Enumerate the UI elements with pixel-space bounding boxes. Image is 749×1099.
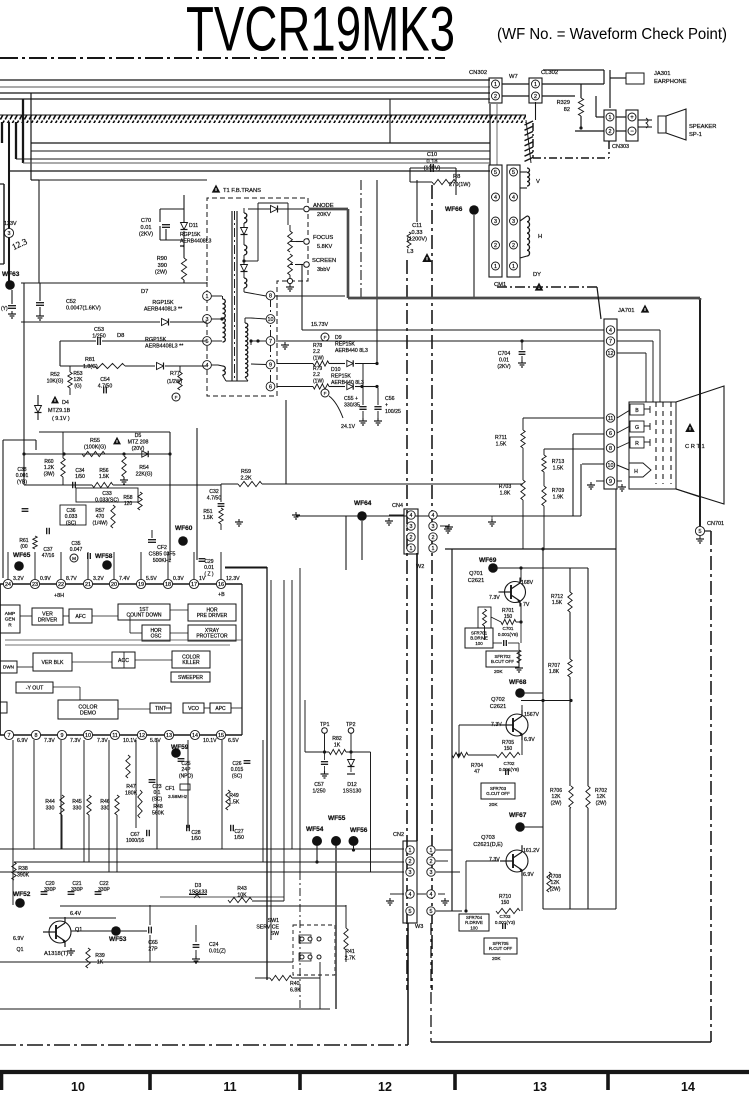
- svg-text:4: 4: [430, 892, 433, 898]
- svg-text:−: −: [630, 129, 634, 135]
- svg-text:C21: C21: [72, 881, 81, 887]
- svg-text:C703: C703: [500, 914, 511, 919]
- svg-text:3: 3: [494, 219, 497, 225]
- svg-text:F: F: [175, 395, 178, 400]
- svg-text:R.CUT OFF: R.CUT OFF: [489, 946, 513, 951]
- svg-text:WF53: WF53: [109, 936, 127, 943]
- svg-text:0.9V: 0.9V: [40, 576, 51, 582]
- svg-text:R49: R49: [229, 793, 239, 799]
- svg-text:+: +: [385, 402, 388, 408]
- svg-text:15: 15: [218, 733, 224, 739]
- svg-text:0.015: 0.015: [231, 767, 244, 773]
- svg-text:13: 13: [533, 1080, 547, 1094]
- svg-text:DRIVER: DRIVER: [38, 617, 58, 623]
- svg-text:(SC): (SC): [66, 520, 77, 526]
- svg-text:1: 1: [512, 264, 515, 270]
- svg-text:6.9V: 6.9V: [17, 738, 28, 744]
- svg-text:7.3V: 7.3V: [489, 595, 500, 601]
- svg-text:AERB440 8L3: AERB440 8L3: [335, 348, 368, 354]
- svg-text:7V: 7V: [523, 602, 530, 608]
- svg-text:5.8KV: 5.8KV: [317, 244, 333, 250]
- svg-text:5: 5: [699, 529, 702, 535]
- svg-text:12K: 12K: [74, 377, 84, 383]
- svg-text:C53: C53: [94, 327, 104, 333]
- svg-text:10.1V: 10.1V: [123, 738, 137, 744]
- svg-text:R78: R78: [313, 343, 322, 349]
- svg-text:C R T 1: C R T 1: [685, 444, 705, 450]
- svg-text:14: 14: [681, 1080, 695, 1094]
- svg-text:7.3V: 7.3V: [44, 738, 55, 744]
- svg-text:SCREEN: SCREEN: [312, 258, 336, 264]
- svg-text:R51: R51: [203, 509, 212, 515]
- svg-text:DEMO: DEMO: [80, 711, 96, 717]
- svg-text:(2KV): (2KV): [139, 232, 153, 238]
- svg-text:D12: D12: [347, 782, 357, 788]
- svg-text:0.0047(1.6KV): 0.0047(1.6KV): [66, 306, 101, 312]
- svg-text:+B: +B: [218, 592, 225, 598]
- svg-text:R: R: [635, 441, 639, 447]
- svg-text:WF68: WF68: [509, 679, 527, 686]
- svg-text:R79: R79: [313, 366, 322, 372]
- svg-text:7.4V: 7.4V: [119, 576, 130, 582]
- svg-text:PROTECTOR: PROTECTOR: [196, 634, 228, 640]
- svg-text:C67: C67: [130, 832, 139, 838]
- svg-text:1V: 1V: [199, 576, 206, 582]
- svg-text:8: 8: [35, 733, 38, 739]
- svg-text:C23: C23: [152, 784, 161, 790]
- svg-text:6: 6: [269, 384, 272, 390]
- svg-text:GEN: GEN: [5, 617, 16, 623]
- svg-text:10: 10: [268, 317, 274, 323]
- svg-text:F: F: [324, 391, 327, 396]
- svg-text:SPEAKER: SPEAKER: [689, 124, 716, 130]
- svg-text:1000/16: 1000/16: [126, 838, 144, 844]
- svg-text:100: 100: [475, 641, 483, 646]
- svg-text:R702: R702: [595, 788, 607, 794]
- svg-text:C11: C11: [412, 223, 422, 229]
- svg-text:161.2V: 161.2V: [523, 848, 540, 854]
- svg-text:R41: R41: [345, 949, 355, 955]
- svg-text:1.2K: 1.2K: [44, 465, 55, 471]
- svg-text:R329: R329: [557, 100, 570, 106]
- svg-text:2: 2: [430, 859, 433, 865]
- svg-text:4: 4: [432, 513, 435, 519]
- svg-text:(2W): (2W): [551, 800, 562, 806]
- svg-text:C57: C57: [314, 782, 324, 788]
- svg-text:V: V: [536, 179, 540, 185]
- svg-text:R706: R706: [550, 788, 562, 794]
- svg-text:CF2: CF2: [157, 545, 167, 551]
- svg-text:R707: R707: [548, 663, 560, 669]
- svg-text:C2621: C2621: [468, 578, 484, 584]
- svg-text:KILLER: KILLER: [182, 660, 200, 666]
- svg-text:20: 20: [111, 582, 117, 588]
- svg-text:3: 3: [410, 524, 413, 530]
- svg-text:C37: C37: [43, 547, 52, 553]
- svg-text:1: 1: [534, 82, 537, 88]
- svg-text:C27: C27: [234, 829, 243, 835]
- svg-text:2: 2: [409, 859, 412, 865]
- svg-text:1/50: 1/50: [75, 474, 85, 480]
- svg-text:C54: C54: [100, 377, 110, 383]
- svg-text:1.5K: 1.5K: [552, 600, 563, 606]
- svg-text:6.4V: 6.4V: [70, 911, 81, 917]
- svg-text:(NPO): (NPO): [179, 773, 194, 779]
- svg-text:330/35: 330/35: [344, 402, 360, 408]
- svg-text:WF55: WF55: [328, 815, 346, 822]
- svg-text:6.9V: 6.9V: [524, 737, 535, 743]
- svg-text:1: 1: [609, 115, 612, 121]
- svg-text:C26: C26: [232, 761, 241, 767]
- svg-text:APC: APC: [215, 706, 226, 712]
- svg-text:0.01: 0.01: [204, 565, 214, 571]
- svg-text:1: 1: [206, 294, 209, 300]
- svg-text:270(1W): 270(1W): [449, 182, 471, 188]
- svg-text:R45: R45: [72, 799, 82, 805]
- svg-text:12: 12: [608, 351, 614, 357]
- svg-text:R44: R44: [45, 799, 55, 805]
- svg-text:B: B: [635, 408, 639, 414]
- svg-text:C24: C24: [209, 942, 219, 948]
- svg-text:0.01: 0.01: [499, 357, 509, 363]
- svg-text:1.8K: 1.8K: [500, 490, 511, 496]
- svg-text:2.2: 2.2: [313, 372, 320, 378]
- svg-text:2: 2: [512, 243, 515, 249]
- svg-text:R59: R59: [241, 469, 251, 475]
- svg-text:1.8K: 1.8K: [549, 669, 560, 675]
- svg-text:C704: C704: [498, 351, 511, 357]
- svg-text:0.3V: 0.3V: [173, 576, 184, 582]
- svg-text:1: 1: [410, 546, 413, 552]
- svg-text:0.001(Y8): 0.001(Y8): [498, 632, 519, 637]
- svg-text:W7: W7: [509, 74, 518, 80]
- svg-text:330: 330: [101, 805, 110, 811]
- svg-text:WF67: WF67: [509, 812, 527, 819]
- svg-text:AERB440 8L3: AERB440 8L3: [331, 380, 364, 386]
- svg-text:15.73V: 15.73V: [311, 322, 328, 328]
- svg-text:JA301: JA301: [654, 71, 670, 77]
- svg-text:3: 3: [409, 870, 412, 876]
- svg-text:TP1: TP1: [320, 722, 330, 728]
- svg-text:( 9.1V ): ( 9.1V ): [52, 416, 70, 422]
- svg-text:C2621(D,E): C2621(D,E): [473, 842, 503, 848]
- svg-text:6.5V: 6.5V: [228, 738, 239, 744]
- svg-text:WF54: WF54: [306, 826, 324, 833]
- svg-text:R61: R61: [19, 538, 28, 544]
- svg-text:10.1V: 10.1V: [203, 738, 217, 744]
- svg-text:1: 1: [430, 848, 433, 854]
- svg-text:C20: C20: [45, 881, 54, 887]
- svg-text:5: 5: [494, 170, 497, 176]
- svg-text:2: 2: [534, 94, 537, 100]
- svg-text:R81: R81: [85, 357, 95, 363]
- svg-text:4: 4: [410, 513, 413, 519]
- svg-text:-Y OUT: -Y OUT: [26, 685, 44, 691]
- svg-text:2.2: 2.2: [313, 349, 320, 355]
- svg-text:23: 23: [32, 582, 38, 588]
- svg-text:390: 390: [158, 263, 167, 269]
- svg-text:6.9V: 6.9V: [523, 872, 534, 878]
- svg-text:330: 330: [46, 805, 55, 811]
- svg-text:470: 470: [96, 514, 105, 520]
- svg-text:7: 7: [269, 339, 272, 345]
- svg-text:(YB): (YB): [17, 479, 27, 485]
- svg-text:R703: R703: [499, 484, 512, 490]
- svg-text:WF64: WF64: [354, 500, 372, 507]
- svg-text:C10: C10: [427, 152, 437, 158]
- svg-text:C52: C52: [66, 299, 76, 305]
- svg-text:R54: R54: [139, 465, 149, 471]
- svg-text:R710: R710: [499, 894, 511, 900]
- svg-text:D11: D11: [189, 223, 198, 229]
- svg-text:4: 4: [609, 328, 612, 334]
- svg-text:0.033: 0.033: [65, 514, 78, 520]
- svg-text:R48: R48: [153, 804, 163, 810]
- svg-text:W2: W2: [416, 564, 424, 570]
- svg-text:R43: R43: [237, 886, 247, 892]
- svg-text:24.1V: 24.1V: [341, 424, 355, 430]
- svg-text:SWEEPER: SWEEPER: [178, 675, 203, 681]
- svg-text:0.033(SC): 0.033(SC): [95, 497, 119, 503]
- svg-text:11: 11: [112, 733, 118, 739]
- svg-text:R53: R53: [73, 371, 82, 377]
- svg-text:9: 9: [61, 733, 64, 739]
- svg-text:12: 12: [139, 733, 145, 739]
- svg-text:R56: R56: [99, 468, 108, 474]
- svg-text:1.5K: 1.5K: [496, 441, 507, 447]
- svg-text:C38: C38: [17, 467, 26, 473]
- svg-text:CF1: CF1: [165, 786, 175, 792]
- svg-text:4: 4: [512, 195, 515, 201]
- svg-text:2.2K: 2.2K: [240, 476, 251, 482]
- svg-text:2: 2: [432, 535, 435, 541]
- svg-text:DY: DY: [533, 272, 541, 278]
- svg-text:20K: 20K: [489, 802, 498, 808]
- svg-text:12.3V: 12.3V: [226, 576, 240, 582]
- svg-text:C33: C33: [102, 491, 112, 497]
- svg-text:1/50: 1/50: [191, 836, 201, 842]
- svg-text:24: 24: [5, 582, 11, 588]
- svg-text:R: R: [8, 622, 12, 628]
- svg-text:TVCR19MK3: TVCR19MK3: [186, 0, 455, 65]
- svg-text:100: 100: [470, 925, 478, 930]
- svg-text:2: 2: [410, 535, 413, 541]
- svg-text:R40: R40: [290, 981, 300, 987]
- svg-text:1.9K: 1.9K: [553, 494, 564, 500]
- svg-text:F: F: [324, 335, 327, 340]
- svg-text:CN4: CN4: [392, 503, 403, 509]
- svg-text:7.3V: 7.3V: [97, 738, 108, 744]
- svg-text:WF65: WF65: [13, 552, 31, 559]
- svg-text:R712: R712: [551, 594, 563, 600]
- svg-text:(SC): (SC): [152, 796, 163, 802]
- svg-text:100/25: 100/25: [385, 409, 401, 415]
- svg-text:(00: (00: [20, 544, 27, 550]
- svg-text:AERB4408L3 **: AERB4408L3 **: [144, 307, 183, 313]
- svg-text:WF69: WF69: [479, 557, 497, 564]
- svg-text:0.1: 0.1: [154, 790, 161, 796]
- svg-text:18: 18: [165, 582, 171, 588]
- svg-text:0.01(Z): 0.01(Z): [209, 948, 226, 954]
- svg-text:C56: C56: [385, 396, 395, 402]
- svg-text:3: 3: [8, 231, 11, 237]
- svg-text:3: 3: [512, 219, 515, 225]
- svg-text:C55 +: C55 +: [344, 396, 358, 402]
- svg-text:CSB5 03F5: CSB5 03F5: [149, 551, 176, 557]
- svg-text:PRE DRIVER: PRE DRIVER: [197, 613, 228, 619]
- svg-text:C35: C35: [71, 541, 80, 547]
- svg-text:2: 2: [494, 94, 497, 100]
- svg-text:R90: R90: [157, 256, 167, 262]
- svg-text:168V: 168V: [521, 580, 534, 586]
- svg-text:9: 9: [269, 362, 272, 368]
- svg-text:1SS130: 1SS130: [343, 788, 362, 794]
- svg-text:JA701: JA701: [618, 308, 634, 314]
- svg-text:10K(G): 10K(G): [47, 378, 64, 384]
- svg-text:C36: C36: [66, 508, 75, 514]
- svg-text:0.18: 0.18: [427, 159, 438, 165]
- svg-text:WF52: WF52: [13, 891, 31, 898]
- svg-text:7.3V: 7.3V: [489, 857, 500, 863]
- svg-text:1: 1: [494, 82, 497, 88]
- svg-text:SERVICE: SERVICE: [256, 924, 279, 930]
- svg-text:D5: D5: [135, 433, 142, 439]
- svg-text:Q701: Q701: [469, 571, 483, 577]
- svg-text:12K: 12K: [551, 880, 561, 886]
- svg-text:0.01: 0.01: [141, 225, 152, 231]
- svg-text:17: 17: [191, 582, 197, 588]
- svg-text:RGP15K: RGP15K: [180, 232, 201, 238]
- svg-text:+8H: +8H: [54, 593, 64, 599]
- svg-text:REP15K: REP15K: [331, 373, 351, 379]
- svg-text:D7: D7: [141, 289, 148, 295]
- svg-text:47/16: 47/16: [42, 553, 55, 559]
- svg-text:A1318(T): A1318(T): [44, 951, 68, 957]
- svg-text:10: 10: [85, 733, 91, 739]
- svg-text:12: 12: [378, 1080, 392, 1094]
- svg-text:5.5V: 5.5V: [146, 576, 157, 582]
- svg-text:R52: R52: [50, 372, 60, 378]
- svg-text:WF56: WF56: [350, 827, 368, 834]
- svg-text:R38: R38: [18, 866, 28, 872]
- svg-text:0.33: 0.33: [412, 230, 423, 236]
- svg-text:CN2: CN2: [393, 832, 404, 838]
- svg-text:12K: 12K: [597, 794, 607, 800]
- svg-text:Q703: Q703: [481, 835, 495, 841]
- svg-text:1.5K: 1.5K: [229, 799, 240, 805]
- svg-text:22K(G): 22K(G): [136, 471, 153, 477]
- svg-text:AMP: AMP: [5, 611, 15, 617]
- svg-text:C34: C34: [75, 468, 84, 474]
- svg-text:82: 82: [564, 107, 570, 113]
- svg-text:R701: R701: [502, 608, 514, 614]
- svg-text:DWN: DWN: [3, 665, 14, 670]
- svg-text:R705: R705: [502, 740, 514, 746]
- svg-text:R55: R55: [90, 438, 100, 444]
- svg-text:20K: 20K: [494, 669, 503, 675]
- svg-text:H: H: [634, 469, 638, 475]
- svg-text:2: 2: [494, 243, 497, 249]
- svg-text:1: 1: [494, 264, 497, 270]
- svg-text:10: 10: [608, 463, 614, 469]
- svg-text:1K: 1K: [334, 742, 341, 748]
- svg-text:7: 7: [8, 733, 11, 739]
- svg-text:R57: R57: [95, 508, 104, 514]
- svg-text:Q1: Q1: [75, 927, 82, 933]
- svg-text:R713: R713: [552, 459, 565, 465]
- svg-text:5.8V: 5.8V: [150, 738, 161, 744]
- svg-text:5: 5: [430, 909, 433, 915]
- svg-text:21: 21: [85, 582, 91, 588]
- svg-text:R39: R39: [95, 953, 105, 959]
- svg-text:VER BLK: VER BLK: [42, 660, 64, 666]
- svg-text:560K: 560K: [152, 810, 165, 816]
- svg-text:150: 150: [501, 900, 510, 906]
- svg-text:1/250: 1/250: [92, 334, 106, 340]
- svg-text:4: 4: [409, 892, 412, 898]
- svg-text:R82: R82: [332, 736, 342, 742]
- svg-text:5: 5: [409, 909, 412, 915]
- svg-text:RGP15K: RGP15K: [145, 337, 167, 343]
- svg-text:7.3V: 7.3V: [70, 738, 81, 744]
- svg-text:CN303: CN303: [612, 144, 629, 150]
- svg-text:4.7/50: 4.7/50: [207, 495, 222, 501]
- svg-text:(100K(G): (100K(G): [84, 445, 106, 451]
- svg-text:W3: W3: [415, 924, 423, 930]
- svg-text:16: 16: [218, 582, 224, 588]
- svg-text:(Y): (Y): [1, 306, 8, 312]
- svg-text:1: 1: [432, 546, 435, 552]
- svg-text:+: +: [630, 115, 634, 121]
- svg-text:R60: R60: [44, 459, 53, 465]
- svg-text:150: 150: [504, 746, 513, 752]
- svg-text:C22: C22: [99, 881, 108, 887]
- svg-text:9: 9: [609, 479, 612, 485]
- svg-text:CN701: CN701: [707, 521, 724, 527]
- svg-text:MTZ 208: MTZ 208: [128, 439, 149, 445]
- svg-text:20K: 20K: [492, 956, 501, 962]
- svg-text:(2KV): (2KV): [497, 364, 511, 370]
- svg-text:COLOR: COLOR: [78, 704, 97, 710]
- svg-text:R46: R46: [100, 799, 110, 805]
- svg-text:(G): (G): [74, 383, 82, 389]
- svg-text:MTZ9.1B: MTZ9.1B: [48, 408, 71, 414]
- svg-text:AERB4408L3 **: AERB4408L3 **: [145, 344, 184, 350]
- svg-text:COUNT DOWN: COUNT DOWN: [127, 613, 162, 619]
- svg-text:12K: 12K: [552, 794, 562, 800]
- svg-text:6.9V: 6.9V: [13, 936, 24, 942]
- svg-text:TP2: TP2: [346, 722, 356, 728]
- svg-text:(2W): (2W): [155, 270, 167, 276]
- svg-text:L3: L3: [407, 249, 413, 255]
- svg-text:H: H: [538, 234, 542, 240]
- svg-text:(1/4W): (1/4W): [93, 520, 108, 526]
- svg-text:2: 2: [609, 129, 612, 135]
- svg-text:1/50: 1/50: [234, 835, 244, 841]
- svg-text:RGP15K: RGP15K: [152, 300, 174, 306]
- svg-text:OSC: OSC: [151, 634, 162, 640]
- svg-text:7: 7: [609, 339, 612, 345]
- svg-text:390K: 390K: [17, 872, 30, 878]
- svg-text:5: 5: [512, 170, 515, 176]
- svg-text:CL302: CL302: [541, 70, 558, 76]
- svg-text:0.001(Y8): 0.001(Y8): [499, 767, 520, 772]
- svg-text:WF58: WF58: [95, 553, 113, 560]
- svg-text:5: 5: [206, 339, 209, 345]
- svg-text:3.2V: 3.2V: [93, 576, 104, 582]
- svg-text:8: 8: [269, 293, 272, 299]
- svg-text:3bbV: 3bbV: [317, 267, 330, 273]
